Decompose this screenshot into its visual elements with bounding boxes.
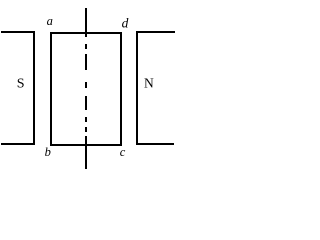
svg-text:c: c <box>120 145 126 159</box>
magnet pole N (right) <box>136 31 175 145</box>
svg-text:d: d <box>122 16 129 31</box>
rotation axis upper solid segment <box>85 8 87 37</box>
rotation axis dash-dot segment <box>85 44 87 132</box>
rotation axis lower solid segment <box>85 136 87 169</box>
magnet pole S (left) <box>1 31 35 145</box>
svg-text:a: a <box>47 14 53 28</box>
coil loop abcd <box>51 33 121 145</box>
svg-text:N: N <box>144 76 154 91</box>
svg-text:S: S <box>17 77 25 92</box>
svg-text:b: b <box>45 145 51 159</box>
